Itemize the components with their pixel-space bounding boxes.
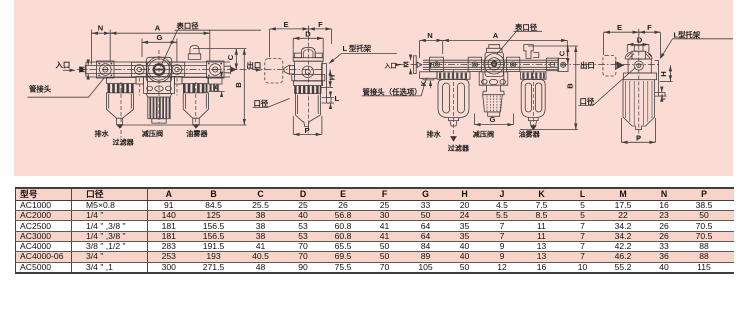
side view comb teeth [294,86,321,94]
lubricator fill plug [188,45,200,59]
svg-text:减压阀: 减压阀 [473,129,494,138]
svg-text:M: M [402,61,411,67]
regulator ribbed knob [148,97,170,119]
svg-text:入口: 入口 [56,61,71,70]
svg-text:N: N [98,24,103,33]
outlet stub [224,65,231,74]
regulator knob flange [146,94,172,98]
filter drain arrow [451,137,456,142]
svg-text:过滤器: 过滤器 [448,143,470,152]
svg-text:F: F [318,20,323,29]
svg-text:管接头（任选项）: 管接头（任选项） [363,87,422,96]
side view dome bonnet [301,47,315,57]
flange4 right [547,58,559,71]
port3 circle [172,65,182,75]
svg-text:管接头: 管接头 [29,85,52,94]
E/F junction tick right [638,29,640,36]
lubricator bowl [183,93,208,118]
svg-text:A: A [155,24,161,33]
svg-text:G: G [490,115,496,124]
svg-text:E: E [617,23,622,32]
side cone right [616,61,624,70]
port3 flange [169,62,185,77]
phantom dashed box right [603,56,616,77]
end block right [558,58,568,71]
lubricator L1 neck [182,78,208,84]
svg-text:入口: 入口 [384,63,397,70]
knurl ribs right [487,96,500,112]
svg-text:P: P [636,134,641,143]
lubricator neck right [521,72,547,79]
circle4 right [550,62,555,67]
svg-text:油雾器: 油雾器 [186,129,208,138]
side lower plate right [624,73,657,80]
svg-text:出口: 出口 [580,61,595,70]
lubricator comb teeth [183,84,207,93]
left port circle [100,64,112,76]
side view left fitting [284,65,295,74]
N extension lines [91,30,93,65]
side body right [628,59,651,73]
knob circles right [484,54,504,74]
side view bowl [295,94,320,127]
filter drain right [449,118,459,126]
svg-text:L型托架: L型托架 [674,30,701,39]
end circle right [561,62,566,67]
left port flange [97,61,115,78]
regulator centerline dashed [158,50,160,123]
side centerline right [638,34,640,141]
svg-text:H: H [328,75,337,80]
svg-text:F: F [647,23,652,32]
svg-text:E: E [283,20,288,29]
A extension line right [209,30,211,62]
regulator knurl cup right [483,95,505,112]
filter drain tip [117,118,123,125]
B bottom extension line [118,124,247,126]
filter comb right [439,73,467,79]
C top extension line [193,48,247,50]
filter bowl slots right [443,83,450,113]
lubricator drain right [529,117,539,125]
svg-text:C: C [226,54,235,60]
port2 flange [132,62,148,77]
regulator neck right [483,85,505,95]
svg-text:排水: 排水 [427,129,442,138]
right port flange [207,61,225,78]
svg-text:B: B [565,83,574,89]
port stub centerlines [139,78,177,96]
inlet arrow right [396,64,401,66]
filter F1 neck [107,78,137,84]
svg-text:减压阀: 减压阀 [142,129,163,138]
flange2 right [468,57,481,71]
svg-text:过滤器: 过滤器 [113,137,135,146]
port2 circle [134,65,144,75]
lubricator comb right [522,73,545,79]
right port axis centerline [398,63,660,65]
bowl ribs right [626,81,652,125]
circle3 right [510,62,515,67]
side view dome ears [294,53,301,58]
side view bracket plate top [293,58,323,62]
svg-text:D: D [637,36,643,45]
svg-text:G: G [157,33,163,42]
phantom pipe fitting dashed box [265,59,283,83]
manifold bar right [423,60,558,69]
filter comb teeth [108,84,134,93]
regulator body right [479,72,508,85]
E/F junction tick [308,26,310,33]
svg-text:N: N [427,31,432,40]
side view body flange [292,75,325,81]
lubricator centerline dashed [195,82,197,130]
right port circle [209,64,221,76]
inlet cone right [414,56,417,74]
regulator ovals right [482,79,488,84]
side view port circle [302,66,314,78]
fill plug right [524,45,539,59]
svg-text:L 型托架: L 型托架 [343,44,372,53]
svg-text:D: D [305,30,311,39]
svg-text:L: L [335,94,340,103]
svg-text:K: K [419,80,428,86]
clamp regulator-lubricator [174,77,182,85]
side shoulders right [625,52,652,59]
side view centerline [308,31,310,134]
side bracket vertical plate [322,64,331,104]
flange3 right [507,57,520,71]
side bracket plate right [655,61,665,97]
left port flange right [430,57,444,71]
svg-text:H: H [659,71,668,76]
filter bowl right [438,80,469,118]
filter centerline right [453,70,455,137]
regulator body [144,77,175,94]
side view ring band [294,81,323,86]
knob housing right [485,52,504,76]
flange bolt dots [98,63,222,77]
svg-text:排水: 排水 [95,129,110,138]
svg-text:表口径: 表口径 [514,23,538,32]
side view body [294,61,322,81]
svg-text:表口径: 表口径 [176,22,200,31]
svg-text:P: P [304,126,309,135]
inlet arrow [63,69,75,71]
lubricator bowl slots right [525,83,531,112]
left port circle right [434,62,440,68]
G extension lines [141,39,143,58]
knob top cap right [487,45,503,53]
bracket plate under manifold right [420,72,438,79]
lubricator drain arrow [531,126,536,130]
C top extension right [528,45,578,47]
lubricator bowl right [521,80,545,118]
filter bowl [106,93,133,118]
svg-text:C: C [558,50,567,56]
side top nut right [634,45,643,51]
svg-text:M: M [78,66,87,72]
regulator ports ovals [147,86,153,91]
side circle right [634,61,643,70]
svg-text:A: A [493,31,499,40]
clamp filter-regulator [136,77,144,85]
port axis centerline [77,69,323,71]
regulator bottom cap right [488,112,500,116]
svg-text:油雾器: 油雾器 [519,129,541,138]
circle2 right [472,62,477,67]
comb block under right port [209,78,223,84]
svg-text:口径: 口径 [580,97,595,106]
lubricator drain tip [193,118,199,125]
regulator knob circles U1 [146,57,171,82]
side bowl right with ribs [623,80,655,130]
B bottom extension right [520,129,578,131]
inlet cone fitting [80,67,85,72]
svg-text:B: B [234,82,243,88]
regulator knob housing [146,57,171,81]
filter right: neck [437,72,470,79]
filter centerline dashed [120,82,122,138]
lubricator centerline right [532,70,534,128]
side cap right [632,51,646,59]
regulator bottom cap [152,119,166,123]
svg-text:口径: 口径 [254,99,269,108]
manifold bar [86,62,230,77]
svg-text:出口: 出口 [247,61,262,70]
